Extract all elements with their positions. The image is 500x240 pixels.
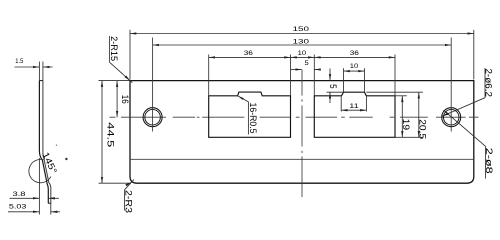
svg-text:2-ø8: 2-ø8 xyxy=(484,148,494,174)
underline 2-dia6.2 xyxy=(484,68,486,98)
svg-text:150: 150 xyxy=(293,25,310,32)
leader 2-R3 xyxy=(125,180,134,190)
dimension 1.5 right arrow xyxy=(43,66,52,68)
leader 2-dia6.2 xyxy=(442,98,485,117)
svg-text:130: 130 xyxy=(293,38,310,45)
svg-text:2-R3: 2-R3 xyxy=(124,190,134,213)
svg-text:20.5: 20.5 xyxy=(417,119,427,139)
extension line outer tip face down xyxy=(50,203,52,214)
right hole outer circle xyxy=(442,108,461,127)
145 degree arc xyxy=(29,159,51,182)
svg-text:3.8: 3.8 xyxy=(13,190,26,197)
small speck xyxy=(56,145,57,146)
dimension 10 gap xyxy=(291,56,315,58)
dimension 150 xyxy=(130,33,474,35)
extension lines for 36/10/36 dims xyxy=(208,55,210,96)
dimension 130 xyxy=(153,44,452,46)
leader 16-R0.5 xyxy=(238,96,249,102)
dimension 20.5 xyxy=(418,92,420,137)
svg-text:5: 5 xyxy=(305,59,309,66)
svg-text:11: 11 xyxy=(349,102,359,109)
extension notch top right for 20.5 xyxy=(366,91,423,93)
extension top edge left xyxy=(99,80,131,82)
white mask behind 16-R0.5 text xyxy=(247,103,258,136)
underline 2-R15 xyxy=(109,36,111,62)
right window cutout xyxy=(314,92,395,137)
svg-text:36: 36 xyxy=(350,49,359,56)
svg-text:44.5: 44.5 xyxy=(105,122,115,147)
extension line notch top level for 5 vertical xyxy=(327,91,344,93)
horizontal centerline through holes xyxy=(110,116,479,118)
right hole vertical centerline / 130 extension xyxy=(450,38,452,132)
underline 2-R3 xyxy=(124,190,126,211)
extension line right edge up xyxy=(473,30,475,80)
underline 16-R0.5 xyxy=(247,102,249,135)
extension line left edge up xyxy=(129,30,131,80)
left hole outer circle xyxy=(143,108,162,127)
leader 2-dia8 xyxy=(444,110,486,146)
main plate outline xyxy=(130,81,474,184)
dimension 3.8 left arrow xyxy=(10,197,40,199)
svg-text:10: 10 xyxy=(298,49,307,56)
dimension 19 xyxy=(401,96,403,138)
svg-text:19: 19 xyxy=(401,119,411,131)
extension line left face down to dims xyxy=(38,158,40,215)
bend line xyxy=(131,158,473,160)
extension bottom edge left xyxy=(99,182,132,184)
vertical centerline of plate xyxy=(301,70,303,197)
extension lines for 11 dim xyxy=(340,96,342,111)
extension lines for notch 10 dim xyxy=(343,68,345,92)
svg-text:36: 36 xyxy=(244,49,253,56)
dimension 3.8 right arrow xyxy=(49,197,60,199)
dimension 36 right xyxy=(314,56,395,58)
dimension 10 notch xyxy=(344,70,365,72)
underline 2-dia8 xyxy=(485,146,487,178)
svg-text:16-R0.5: 16-R0.5 xyxy=(248,103,258,134)
dimension 5.03 left arrow xyxy=(8,211,39,213)
left window cutout xyxy=(209,92,291,137)
dimension 5 vertical bottom arrow xyxy=(329,92,331,103)
side view bottom tip cap xyxy=(48,202,51,204)
leader 2-R15 xyxy=(110,62,133,82)
svg-text:5: 5 xyxy=(328,84,338,89)
right hole inner circle xyxy=(443,109,459,125)
extension lines for 1.5 dim xyxy=(38,62,40,81)
speck dot xyxy=(65,158,67,160)
dimension 1.5 left arrow xyxy=(15,66,40,68)
dimension 16 xyxy=(116,81,118,118)
dimension 36 left xyxy=(209,56,291,58)
left hole inner circle xyxy=(145,109,161,125)
side view top cap xyxy=(39,80,43,82)
dimension 5 vertical top arrow xyxy=(329,69,331,81)
svg-text:16: 16 xyxy=(120,95,130,104)
dimension 5 horizontal right arrow xyxy=(315,69,320,71)
dimension 44.5 xyxy=(101,81,103,184)
svg-text:2-R15: 2-R15 xyxy=(109,36,119,61)
extension window bottom right xyxy=(395,136,423,138)
svg-text:10: 10 xyxy=(350,62,359,69)
dimension 5 horizontal left arrow xyxy=(291,69,302,71)
svg-text:5.03: 5.03 xyxy=(9,203,27,210)
dimension 5.03 right arrow xyxy=(51,211,60,213)
side view plate right face with jog xyxy=(43,81,51,204)
dimension 11 xyxy=(341,109,366,111)
left hole vertical centerline / 130 extension xyxy=(152,38,154,132)
svg-text:1.5: 1.5 xyxy=(15,57,23,64)
extension window top right xyxy=(395,95,407,97)
side view plate left face with jog xyxy=(39,81,48,204)
svg-text:2-ø6.2: 2-ø6.2 xyxy=(484,68,494,97)
